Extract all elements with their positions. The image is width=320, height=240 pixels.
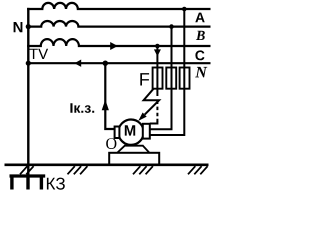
label O (motor frame terminal) — [106, 138, 116, 149]
motor right terminal box — [143, 124, 150, 139]
winding L2 phase B with line B — [27, 21, 210, 27]
winding L3 phase C with line C — [27, 39, 210, 46]
ground: earth surface line — [5, 164, 209, 167]
label N (neutral line, right) — [195, 67, 207, 78]
label КЗ (grounding electrode) — [47, 178, 65, 190]
motor base plate — [109, 153, 159, 165]
arrow: current along line C toward fault — [110, 42, 118, 50]
ground hatch group 2 — [68, 166, 88, 174]
ground electrode rod 1 — [10, 176, 13, 190]
wire: dropper from phase C through fuse F1 — [156, 46, 158, 96]
label TV (transformer) — [29, 49, 48, 59]
arrow: current along N line back to source (left) — [74, 60, 81, 67]
ground hatch group 4 — [188, 166, 208, 174]
wire: dropper from phase A through fuse F3 to motor terminal — [150, 9, 185, 135]
lightning: insulation breakdown from phase C to motor frame — [138, 88, 159, 121]
motor M housing circle — [118, 120, 143, 145]
wire: faulted phase conductor (dashed) to motor terminal — [150, 101, 158, 124]
ground hatch group 3 — [133, 166, 153, 174]
fuse F2 — [166, 68, 176, 89]
wire: dropper from phase B through fuse F2 to motor terminal — [150, 27, 172, 130]
ground hatch group 1 — [20, 166, 34, 174]
wire: PE grounding conductor from N line to motor frame — [105, 63, 114, 129]
winding L1 phase A with line A — [27, 3, 210, 9]
ground electrode rod 2 — [26, 176, 29, 190]
label Iк.з. (short-circuit current) — [70, 103, 94, 113]
arrow: short-circuit current Iк.з. up the grounding conductor — [102, 100, 109, 111]
node: junction dropper A on line A — [182, 7, 187, 12]
wire: neutral line N — [27, 62, 210, 64]
label F (fuses) — [140, 73, 149, 85]
label A (phase A) — [195, 13, 204, 23]
fuse F1 — [153, 68, 163, 89]
node: junction of grounding conductor on N line — [103, 61, 108, 66]
fuse F3 — [180, 68, 190, 89]
ground electrode rod 3 — [40, 176, 43, 190]
node: neutral point N junction on bus at line B — [26, 24, 31, 29]
label C (phase C) — [195, 50, 204, 60]
arrow: fault current down phase C dropper — [154, 49, 161, 56]
node: junction dropper B on line B — [169, 24, 174, 29]
label B (phase B) — [196, 31, 205, 40]
ground electrode bus bar — [10, 174, 46, 177]
label M (motor) — [125, 125, 135, 135]
label N (neutral point) — [14, 22, 23, 32]
node: bus junction with N line — [26, 61, 31, 66]
motor left terminal cap — [115, 127, 120, 139]
wire: neutral-point bus (left vertical) — [27, 8, 29, 176]
motor pedestal trapezoid — [117, 146, 150, 153]
node: junction dropper C on line C — [155, 44, 160, 49]
